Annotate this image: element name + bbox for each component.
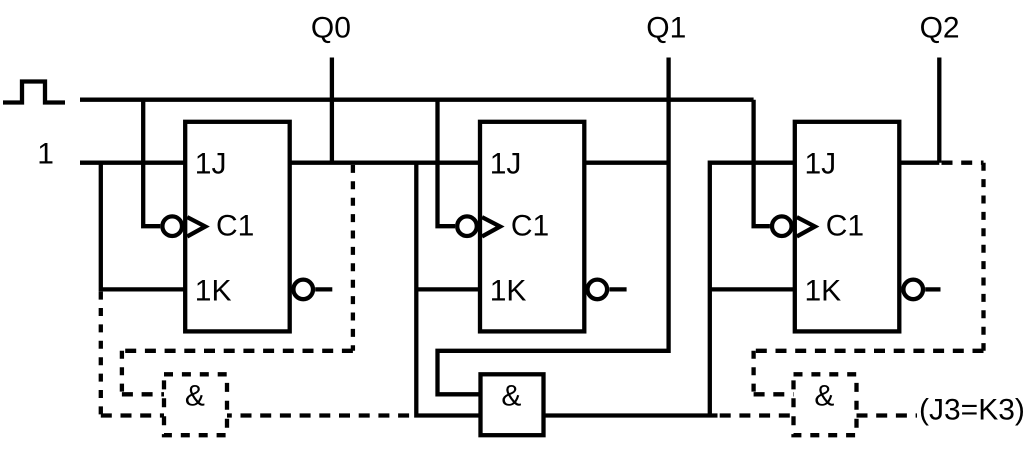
dashed wire 1-feed down below 1K (AND1 path) bbox=[99, 292, 103, 416]
dashed wire Q0 down from Q0 line (AND1 path) bbox=[351, 165, 355, 351]
dashed wire A3 output bbox=[857, 413, 918, 417]
svg-text:Q1: Q1 bbox=[646, 11, 686, 44]
wire FF3 clock branch bbox=[754, 100, 770, 227]
wire Q1 label vertical down to AND2 path bbox=[438, 58, 669, 395]
K output bubble U3 bbox=[903, 280, 923, 300]
flip-flop U1 box bbox=[185, 122, 290, 332]
wire A2 output vertical to FF3 J/K bbox=[710, 163, 795, 416]
clock bubble U3 bbox=[772, 216, 792, 236]
wire FF2 clock branch bbox=[438, 100, 456, 227]
clock triangle U2 bbox=[482, 217, 500, 236]
K output stub U3 bbox=[925, 287, 940, 291]
wire Q2 label vertical bbox=[937, 58, 941, 163]
svg-text:C1: C1 bbox=[826, 210, 864, 243]
clock bubble U1 bbox=[162, 216, 182, 236]
clock triangle U1 bbox=[187, 217, 205, 236]
svg-text:&: & bbox=[814, 379, 834, 412]
AND gate A3 dashed box bbox=[794, 374, 857, 435]
clock bubble U2 bbox=[457, 216, 477, 236]
svg-text:&: & bbox=[185, 379, 205, 412]
svg-text:1: 1 bbox=[37, 138, 54, 171]
dashed wire AND1 path horizontal leftward bbox=[122, 349, 353, 353]
flip-flop U2 box bbox=[480, 122, 584, 332]
dashed wire AND3 path down to top input bbox=[751, 351, 755, 395]
svg-text:1K: 1K bbox=[195, 274, 232, 307]
svg-text:1K: 1K bbox=[490, 274, 527, 307]
wire Q0 to AND2 vertical bbox=[416, 163, 480, 416]
clock triangle U3 bbox=[797, 217, 815, 236]
svg-text:1K: 1K bbox=[805, 274, 842, 307]
wire FF3 K line bbox=[710, 287, 795, 291]
svg-text:C1: C1 bbox=[511, 210, 549, 243]
wire FF2 K line bbox=[416, 287, 480, 291]
svg-text:1J: 1J bbox=[490, 147, 522, 180]
wire A2 output bbox=[544, 413, 718, 417]
flip-flop U3 box bbox=[795, 122, 900, 332]
K output stub U1 bbox=[315, 287, 332, 291]
dashed wire Q2 line rightward (AND3 path) bbox=[942, 161, 984, 165]
dashed wire A1 output bbox=[227, 413, 416, 417]
K output stub U2 bbox=[609, 287, 626, 291]
svg-text:C1: C1 bbox=[216, 210, 254, 243]
dashed wire A2 output to AND3 bottom input bbox=[720, 413, 794, 417]
svg-text:1J: 1J bbox=[195, 147, 227, 180]
K output bubble U2 bbox=[588, 280, 608, 300]
svg-text:(J3=K3): (J3=K3) bbox=[919, 394, 1024, 427]
svg-text:Q0: Q0 bbox=[311, 11, 351, 44]
wire Q1 output line bbox=[584, 161, 668, 165]
dashed wire AND3 path horizontal leftward bbox=[754, 349, 984, 353]
wire Q2 output line bbox=[899, 161, 939, 165]
wire Q0 output line bbox=[290, 161, 480, 165]
dashed wire AND1 bottom input stub bbox=[101, 413, 164, 417]
AND gate A2 box bbox=[481, 374, 544, 435]
svg-text:1J: 1J bbox=[805, 147, 837, 180]
wire 1-input line bbox=[80, 161, 185, 165]
dashed wire AND3 path down right side bbox=[981, 163, 985, 351]
clock pulse icon bbox=[3, 82, 65, 103]
K output bubble U1 bbox=[293, 280, 313, 300]
svg-text:&: & bbox=[501, 379, 521, 412]
dashed wire AND1 top input stub bbox=[122, 392, 164, 396]
dashed wire AND3 top input stub bbox=[754, 392, 794, 396]
wire FF1 J/K feed vertical bbox=[101, 163, 185, 290]
AND gate A1 dashed box bbox=[164, 374, 227, 435]
svg-text:Q2: Q2 bbox=[920, 11, 960, 44]
wire FF1 clock branch bbox=[143, 100, 160, 227]
dashed wire AND1 path down to top input bbox=[120, 351, 124, 395]
wire clock line bbox=[80, 98, 754, 102]
wire Q0 label vertical bbox=[330, 58, 334, 163]
